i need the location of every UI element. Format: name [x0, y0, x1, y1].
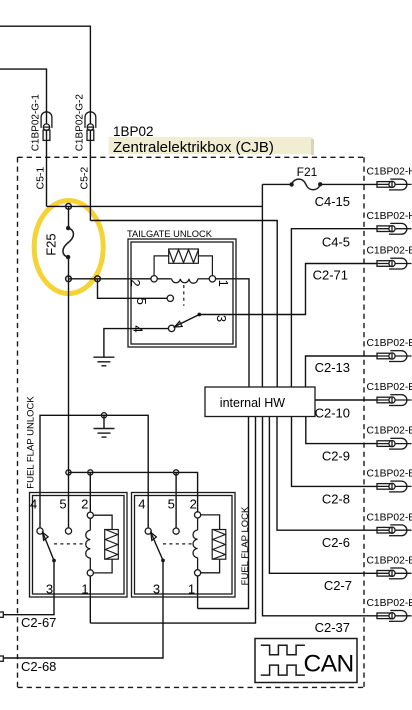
relay FUEL FLAP UNLOCK box — [30, 493, 128, 598]
wire C4-5 from internal HW — [291, 229, 377, 387]
relay pin 2 terminal — [151, 276, 157, 282]
svg-text:C5-1: C5-1 — [34, 167, 46, 190]
connector C1BP02-G-2 — [85, 112, 96, 141]
wire F25 bottom to junction — [68, 257, 70, 279]
CAN box — [255, 639, 357, 683]
lock relay pin 4 terminal — [145, 528, 151, 534]
wire C2-37 from internal HW — [263, 417, 378, 616]
relay coil inductor — [154, 279, 212, 283]
fuse F21 — [292, 179, 321, 190]
svg-text:C1BP02-G-2: C1BP02-G-2 — [74, 94, 85, 152]
wire C2-13 from internal HW — [306, 356, 378, 387]
resistor box — [105, 530, 119, 560]
svg-text:C2-71: C2-71 — [313, 268, 348, 283]
svg-text:TAILGATE UNLOCK: TAILGATE UNLOCK — [127, 229, 213, 239]
wire C2-8 from internal HW — [292, 417, 378, 487]
unlock relay coil bottom terminal — [87, 570, 93, 576]
unlock relay internals — [86, 515, 119, 573]
svg-text:C1BP02-B: C1BP02-B — [367, 426, 412, 437]
svg-text:C2-6: C2-6 — [322, 535, 350, 550]
unlock relay pin 3 dot — [52, 559, 56, 563]
svg-text:2: 2 — [128, 279, 143, 286]
svg-text:C5-2: C5-2 — [78, 167, 90, 190]
ground rail for relay pins 4 — [40, 415, 148, 531]
svg-text:4: 4 — [131, 325, 146, 332]
svg-text:4: 4 — [30, 497, 37, 512]
drop to pin 5 fuel flap unlock — [68, 472, 70, 531]
svg-text:Zentralelektrikbox (CJB): Zentralelektrikbox (CJB) — [113, 139, 274, 156]
relay pin 4 terminal — [168, 325, 174, 331]
relay switch arm — [175, 321, 183, 327]
svg-text:internal HW: internal HW — [220, 396, 285, 410]
svg-text:3: 3 — [153, 582, 160, 597]
svg-text:C2-13: C2-13 — [315, 360, 350, 375]
svg-text:C1BP02-B: C1BP02-B — [367, 246, 412, 257]
fuse F25 — [63, 228, 74, 257]
svg-text:1BP02: 1BP02 — [113, 124, 154, 139]
relay pin 5 terminal — [167, 295, 173, 301]
unlock relay link dashed — [54, 543, 84, 545]
relay mechanical link dashed — [183, 285, 185, 306]
svg-text:CAN: CAN — [304, 651, 354, 678]
lock relay pin 2 terminal — [195, 512, 201, 518]
svg-text:1: 1 — [216, 280, 231, 287]
connector C1BP02-B (C2-10) — [377, 395, 412, 406]
drop to pin 2 fuel flap unlock — [89, 472, 91, 515]
fuse F25 top dot — [66, 226, 70, 230]
svg-text:C4-5: C4-5 — [322, 235, 350, 250]
coil link top — [90, 515, 112, 529]
svg-text:C1BP02-B: C1BP02-B — [367, 555, 412, 566]
connector C1BP02-G-1 — [41, 112, 52, 141]
wire F25 top — [68, 206, 70, 228]
connector C1BP02-B (C2-7) — [377, 568, 412, 579]
wire C2-7 from internal HW — [269, 417, 377, 574]
svg-text:FUEL FLAP UNLOCK: FUEL FLAP UNLOCK — [25, 396, 36, 489]
junction node at F25 top — [66, 204, 72, 210]
svg-text:C2-9: C2-9 — [322, 449, 350, 464]
wire F21 fuse to connector C4-15 — [320, 183, 377, 185]
svg-text:5: 5 — [168, 497, 175, 512]
wire pin 3 unlock to C2-67 — [3, 561, 54, 615]
wire C2-6 from internal HW — [277, 417, 377, 531]
relay pin 1 terminal — [209, 276, 215, 282]
connector C1BP02-B (C2-6) — [377, 525, 412, 536]
relay FUEL FLAP LOCK box — [132, 493, 236, 598]
wire C5-1 branch to F21/F25 node — [47, 205, 263, 207]
fuse F21 right dot — [318, 182, 322, 186]
coil vertical — [89, 518, 91, 530]
wire relay pin 3 to C2-71 — [199, 264, 377, 315]
wire F21 riser / internal HW feed — [261, 184, 263, 387]
lock relay coil bottom terminal — [195, 570, 201, 576]
connector C1BP02-B (C2-13) — [377, 351, 412, 362]
junction supply rail 2 — [88, 470, 93, 475]
internal HW box — [205, 387, 315, 417]
svg-text:C1BP02-B: C1BP02-B — [367, 338, 412, 349]
lock relay internals — [193, 515, 226, 573]
relay TAILGATE UNLOCK box — [128, 239, 236, 347]
unlock relay pin 5 terminal — [65, 528, 71, 534]
svg-text:C1BP02-H: C1BP02-H — [367, 211, 412, 222]
wire C2-9 from internal HW — [306, 417, 377, 444]
svg-text:C1BP02-G-1: C1BP02-G-1 — [31, 94, 42, 152]
svg-text:3: 3 — [46, 582, 53, 597]
junction node pin5 branch — [95, 276, 101, 282]
svg-text:C1BP02-B: C1BP02-B — [367, 512, 412, 523]
wire bus junction to fuel flap rail — [68, 279, 70, 473]
ground on lower rail — [94, 429, 115, 438]
svg-text:C2-67: C2-67 — [21, 615, 56, 630]
svg-text:2: 2 — [190, 497, 197, 512]
ground rail junction — [101, 413, 106, 418]
connector C1BP02-H (C4-15) — [377, 179, 412, 190]
left edge connector stub C2-68 — [0, 656, 3, 661]
svg-text:1: 1 — [188, 582, 195, 597]
svg-text:4: 4 — [138, 497, 145, 512]
left edge connector stub C2-67 — [0, 612, 3, 617]
junction node at F25 bottom — [66, 276, 72, 282]
svg-text:1: 1 — [81, 582, 88, 597]
drop to pin 5 fuel flap lock — [175, 472, 177, 531]
wire relay pin 4 to ground — [104, 329, 169, 358]
fuse F25 bottom dot — [66, 255, 70, 259]
fuse F21 left dot — [289, 182, 293, 186]
connector C1BP02-H (C4-5) — [377, 223, 412, 234]
svg-text:C2-7: C2-7 — [324, 578, 352, 593]
CJB dashed boundary box — [18, 157, 365, 687]
connector C1BP02-B (C2-8) — [377, 481, 412, 492]
svg-text:5: 5 — [59, 497, 66, 512]
coil link bottom — [90, 559, 112, 573]
connector C1BP02-B (C2-9) — [377, 438, 412, 449]
wire to relay pin 5 — [98, 279, 171, 299]
highlight ellipse around F25 — [34, 201, 103, 294]
svg-text:2: 2 — [81, 497, 88, 512]
svg-text:F21: F21 — [297, 165, 318, 179]
unlock relay pin 2 terminal — [87, 512, 93, 518]
svg-text:C2-68: C2-68 — [21, 659, 56, 674]
wire fuel flap unlock pin 1 to internal HW — [90, 417, 255, 624]
connector C1BP02-B (C2-71) — [377, 258, 412, 269]
wire feed C1BP02-G-2 top — [0, 26, 90, 220]
CAN icon squarewaves — [261, 645, 305, 675]
relay coil resistor U1 — [154, 249, 212, 276]
junction supply rail 3 — [174, 470, 179, 475]
wire fuel flap lock pin 1 to internal HW — [198, 417, 249, 609]
svg-text:FUEL FLAP LOCK: FUEL FLAP LOCK — [240, 506, 251, 585]
connector C1BP02-B (C2-37) — [377, 611, 412, 622]
lock relay switch arm — [151, 532, 157, 540]
svg-text:C1BP02-B: C1BP02-B — [367, 382, 412, 393]
svg-text:C2-10: C2-10 — [315, 406, 350, 421]
svg-text:C1BP02-H: C1BP02-H — [367, 167, 412, 178]
svg-text:5: 5 — [134, 298, 149, 305]
junction supply rail 1 — [66, 470, 71, 475]
highlight bar behind Zentralelektrikbox label — [109, 137, 313, 154]
wire C2-10 from internal HW — [315, 399, 377, 401]
unlock relay switch arm — [43, 532, 49, 540]
wire pin 3 lock to C2-68 — [4, 560, 164, 658]
svg-text:C1BP02-B: C1BP02-B — [367, 598, 412, 609]
wire feed C1BP02-G-1 top — [0, 69, 47, 206]
svg-text:F25: F25 — [44, 233, 59, 255]
svg-text:C1BP02-B: C1BP02-B — [367, 469, 412, 480]
wire C5-2 branch to internal HW — [90, 221, 277, 388]
ground stub on rail — [103, 415, 105, 428]
lock relay pin 5 terminal — [173, 528, 179, 534]
wire relay pin 1 to internal HW — [212, 279, 249, 387]
ground below tailgate relay — [93, 357, 114, 366]
relay pin 3 contact dot — [197, 313, 201, 317]
wire pin 1 lock lower — [197, 575, 199, 608]
wire F21 to fuse — [262, 183, 291, 185]
unlock relay pin 4 terminal — [37, 528, 43, 534]
supply rail to lower relays — [69, 472, 198, 515]
svg-text:C2-37: C2-37 — [315, 620, 350, 635]
wire to relay pin 2 — [69, 278, 155, 280]
wire pin 1 unlock lower — [89, 576, 91, 624]
lock relay link dashed — [163, 543, 193, 545]
svg-text:3: 3 — [214, 315, 229, 322]
svg-text:C4-15: C4-15 — [315, 194, 350, 209]
svg-text:C2-8: C2-8 — [322, 492, 350, 507]
lock relay pin 3 dot — [161, 559, 165, 563]
